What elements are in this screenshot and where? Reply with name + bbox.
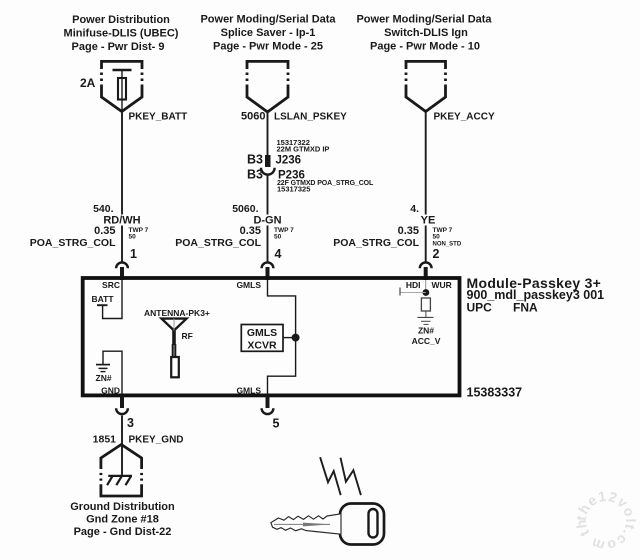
svg-text:GND: GND (101, 386, 120, 396)
svg-text:5060.: 5060. (232, 203, 258, 215)
svg-text:Page - Pwr Dist- 9: Page - Pwr Dist- 9 (72, 41, 165, 53)
wire HDI stub (400, 292, 426, 294)
pin 5 connector (bottom) (266, 395, 270, 408)
ground distribution connector symbol (101, 445, 142, 497)
wire pin2 down (425, 280, 427, 296)
module box Module-Passkey 3+ (83, 278, 460, 395)
svg-text:PKEY_ACCY: PKEY_ACCY (434, 112, 495, 123)
key blade centerline (274, 523, 330, 525)
svg-text:GMLS: GMLS (236, 386, 261, 396)
svg-text:SRC: SRC (102, 280, 120, 290)
svg-text:ZN#: ZN# (96, 373, 112, 383)
svg-text:B3: B3 (247, 168, 263, 182)
wire PKEY_ACCY vertical (425, 112, 427, 215)
key icon lightning bolt 1 (320, 457, 341, 495)
svg-text:Page - Gnd Dist-22: Page - Gnd Dist-22 (74, 526, 172, 538)
header: Power Moding/Serial Data Splice Saver (200, 14, 336, 53)
svg-text:B3: B3 (247, 153, 263, 167)
svg-text:UPC: UPC (467, 301, 493, 315)
svg-text:FNA: FNA (513, 301, 538, 315)
wire PKEY_BATT vertical (121, 112, 123, 215)
svg-text:ACC_V: ACC_V (412, 336, 441, 346)
svg-text:2: 2 (433, 247, 440, 261)
svg-text:50: 50 (433, 234, 441, 241)
header: Power Distribution Minifuse-DLIS (UBEC) (64, 14, 179, 53)
svg-text:2A: 2A (80, 76, 96, 90)
svg-text:POA_STRG_COL: POA_STRG_COL (175, 237, 261, 249)
connector symbol right (ignition switch) (406, 61, 446, 111)
svg-text:4.: 4. (410, 203, 419, 215)
key slot (369, 509, 378, 538)
svg-text:PKEY_GND: PKEY_GND (129, 435, 184, 446)
chassis ground symbol (107, 476, 132, 485)
fuse 2A (113, 70, 132, 112)
key head (340, 504, 384, 545)
svg-text:GMLS: GMLS (247, 327, 277, 339)
wire LSLAN_PSKEY to J236 (267, 112, 269, 155)
terminal J236 (male) (265, 155, 271, 167)
svg-text:15383337: 15383337 (467, 386, 523, 400)
svg-text:5060: 5060 (241, 111, 265, 123)
svg-text:50: 50 (274, 234, 282, 241)
junction dot (423, 289, 430, 296)
svg-text:Splice Saver - Ip-1: Splice Saver - Ip-1 (221, 27, 316, 39)
key icon lightning bolt 2 (341, 458, 361, 495)
junction dot (292, 334, 300, 342)
module internal: ZN# GND ground (103, 351, 122, 395)
svg-text:RF: RF (182, 331, 193, 341)
svg-text:4: 4 (275, 247, 282, 261)
svg-text:XCVR: XCVR (247, 340, 277, 352)
BATT terminal tick (97, 304, 108, 306)
footer: Ground Distribution (70, 501, 175, 538)
svg-text:1: 1 (130, 247, 137, 261)
key blade (271, 514, 341, 534)
svg-text:Switch-DLIS Ign: Switch-DLIS Ign (384, 27, 468, 39)
GMLS XCVR box (241, 325, 283, 352)
svg-text:50: 50 (129, 234, 137, 241)
wire SRC to BATT terminal (103, 280, 122, 319)
pin 2 connector arc (420, 262, 432, 268)
wire label 4. YE 0.35 POA_STRG_COL (333, 203, 462, 249)
ground symbol ZN# ACC_V (417, 316, 433, 318)
ground symbol ZN# (96, 364, 110, 366)
svg-text:HDI: HDI (406, 280, 421, 290)
svg-text:YE: YE (421, 215, 436, 227)
svg-text:5: 5 (273, 417, 280, 431)
svg-text:540.: 540. (93, 203, 114, 215)
pin 4 connector arc (262, 262, 274, 268)
svg-text:0.35: 0.35 (398, 225, 419, 237)
svg-text:ANTENNA-PK3+: ANTENNA-PK3+ (144, 308, 210, 318)
svg-text:3: 3 (127, 416, 134, 430)
svg-text:22M GTMXD IP: 22M GTMXD IP (277, 145, 330, 154)
svg-text:Power Distribution: Power Distribution (72, 14, 170, 26)
wire label 540. RD/WH 0.35 POA_STRG_COL (30, 203, 149, 249)
svg-text:Minifuse-DLIS (UBEC): Minifuse-DLIS (UBEC) (64, 28, 179, 40)
wire XCVR to junction (283, 337, 296, 339)
svg-text:Ground Distribution: Ground Distribution (70, 501, 175, 513)
svg-text:15317325: 15317325 (277, 185, 310, 194)
svg-text:ZN#: ZN# (418, 326, 434, 336)
wire PKEY_GND (121, 416, 123, 476)
svg-text:0.35: 0.35 (240, 225, 261, 237)
svg-text:Power Moding/Serial Data: Power Moding/Serial Data (356, 14, 492, 26)
wire label 5060. D-GN 0.35 POA_STRG_COL (175, 203, 294, 249)
pin 1 connector arc (116, 262, 128, 268)
pin 3 connector (bottom) (120, 395, 124, 408)
header: Power Moding/Serial Data Switch-DLIS Ign (356, 14, 492, 53)
wire P236 to pin 4 (267, 175, 269, 215)
svg-text:Power Moding/Serial Data: Power Moding/Serial Data (200, 14, 336, 26)
connector P236 (female cup) (261, 168, 275, 175)
resistor ACC_V (421, 298, 430, 311)
svg-text:GMLS: GMLS (236, 280, 261, 290)
svg-text:Page - Pwr Mode - 25: Page - Pwr Mode - 25 (213, 41, 323, 53)
svg-text:J236: J236 (276, 155, 302, 167)
svg-text:POA_STRG_COL: POA_STRG_COL (333, 237, 419, 249)
connector symbol middle (splice saver) (247, 61, 288, 112)
svg-text:PKEY_BATT: PKEY_BATT (129, 112, 188, 123)
svg-text:0.35: 0.35 (94, 225, 115, 237)
svg-text:WUR: WUR (432, 280, 452, 290)
connector symbol (fuse holder) left (102, 61, 143, 111)
svg-text:LSLAN_PSKEY: LSLAN_PSKEY (274, 112, 347, 123)
svg-text:POA_STRG_COL: POA_STRG_COL (30, 237, 116, 249)
svg-text:Gnd Zone #18: Gnd Zone #18 (86, 514, 159, 526)
svg-text:1851: 1851 (93, 434, 117, 446)
svg-text:BATT: BATT (92, 294, 115, 304)
wire GMLS internal path (268, 280, 296, 394)
svg-text:Page - Pwr Mode - 10: Page - Pwr Mode - 10 (370, 41, 480, 53)
